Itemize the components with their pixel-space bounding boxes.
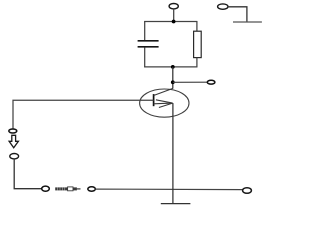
wire RC network bottom rail	[144, 66, 197, 68]
wire bottom rail to right terminal	[95, 188, 242, 191]
connector plug J1	[55, 187, 80, 191]
wire T1 stub down to top rail	[173, 9, 175, 22]
terminal T7 (bottom rail terminal b)	[88, 187, 96, 191]
transistor Q1	[140, 88, 189, 117]
input flow arrow symbol	[9, 135, 18, 148]
node RC bottom junction dot	[171, 65, 175, 69]
terminal T5 (input terminal lower)	[10, 154, 19, 159]
node collector branch junction dot	[171, 80, 175, 84]
wire emitter vertical to ground	[172, 103, 174, 203]
wire resistor lower lead	[196, 58, 198, 68]
terminal T4 (collector output terminal)	[207, 80, 215, 84]
terminal T2 (top right terminal)	[218, 4, 228, 9]
terminal T6 (bottom rail terminal a)	[42, 186, 50, 191]
ground bottom bar	[161, 203, 191, 205]
terminal T3 (input terminal upper)	[9, 129, 17, 133]
wire resistor upper lead	[196, 21, 198, 31]
wire RC network top rail	[144, 21, 197, 23]
wire capacitor lower lead	[144, 47, 146, 67]
wire left column down and to bottom rail	[14, 159, 42, 189]
wire base lead from left column	[13, 100, 154, 129]
wire collector vertical	[172, 67, 174, 89]
wire top right horizontal then down	[228, 7, 247, 22]
capacitor C1	[138, 41, 159, 47]
resistor R1	[194, 31, 202, 57]
terminal T8 (bottom right terminal)	[243, 188, 252, 194]
wire capacitor upper lead	[144, 21, 146, 40]
node top junction dot	[172, 20, 176, 24]
ground top-right bar	[233, 21, 262, 23]
terminal T1 (top supply terminal)	[169, 3, 178, 8]
wire collector branch to output terminal	[173, 81, 208, 83]
